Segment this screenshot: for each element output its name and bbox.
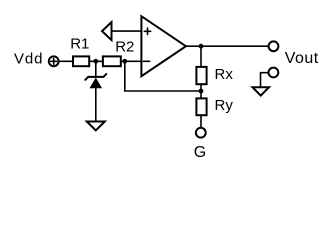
wire ground to op-amp + input	[112, 30, 142, 32]
svg-text:G: G	[194, 144, 206, 161]
op-amp U1	[141, 16, 186, 76]
wire op-amp output to Vout terminal	[186, 45, 268, 47]
svg-text:Rx: Rx	[215, 66, 234, 83]
ground at non-inverting input (pointing left)	[102, 22, 112, 40]
svg-text:R1: R1	[70, 35, 89, 52]
terminal G	[196, 128, 206, 138]
wire Vdd terminal to R1	[58, 60, 73, 62]
wire node A down to zener	[95, 61, 97, 77]
resistor R1	[73, 56, 89, 66]
ground below zener	[87, 122, 105, 131]
node D junction dot	[199, 89, 204, 94]
wire feedback node B to node D	[125, 61, 201, 91]
wire node C down to Rx	[200, 46, 202, 67]
wire zener anode to ground	[95, 88, 97, 121]
terminal Vout	[269, 41, 279, 51]
resistor R2	[103, 56, 121, 66]
ground terminal near Vout	[252, 68, 278, 96]
svg-text:R2: R2	[115, 38, 134, 55]
wire Rx to Ry	[200, 84, 202, 98]
node C junction dot	[199, 44, 204, 49]
wire R2 to op-amp inverting input	[121, 60, 142, 62]
svg-text:Vout: Vout	[285, 50, 319, 67]
svg-text:Ry: Ry	[215, 97, 234, 114]
wire Ry to terminal G	[200, 115, 202, 128]
resistor Rx	[196, 67, 206, 84]
zener diode D1	[85, 74, 106, 88]
terminal Vdd (circle with plus)	[49, 56, 59, 66]
node A junction dot	[93, 59, 98, 64]
op-amp plus sign	[144, 30, 150, 32]
resistor Ry	[196, 98, 206, 115]
wire R1 to R2	[89, 60, 104, 62]
op-amp minus sign	[143, 60, 149, 62]
node B junction dot	[122, 59, 127, 64]
svg-text:Vdd: Vdd	[14, 51, 43, 68]
